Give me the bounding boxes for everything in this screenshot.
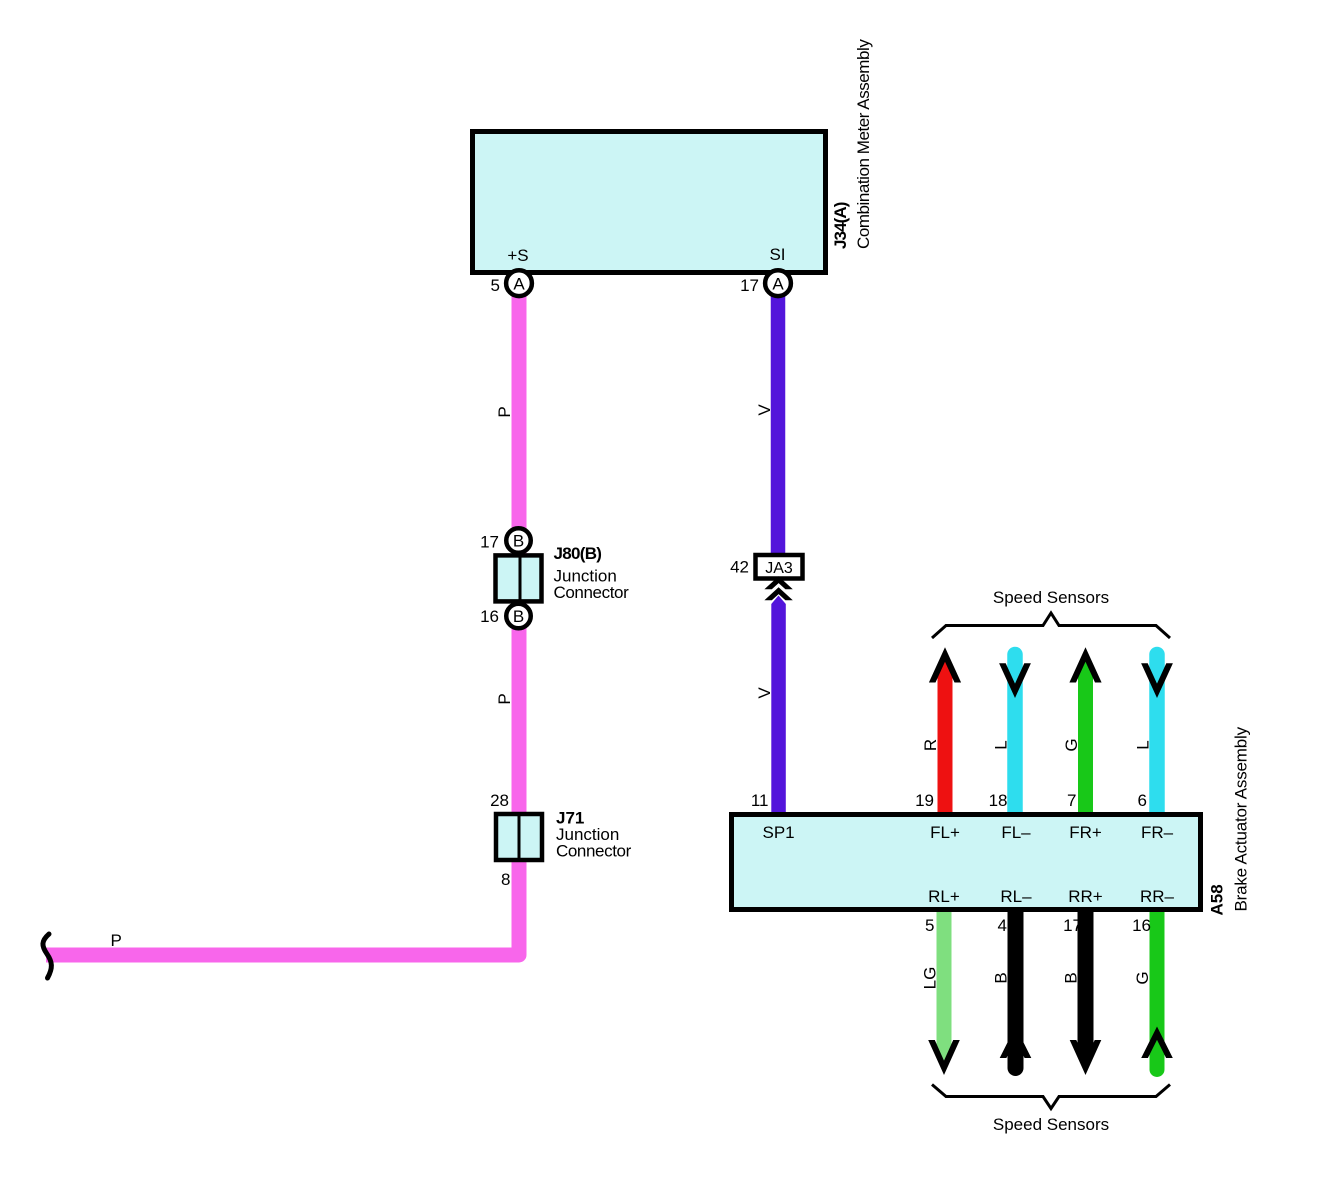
svg-text:Combination Meter Assembly: Combination Meter Assembly — [854, 39, 873, 249]
svg-text:Speed Sensors: Speed Sensors — [993, 1115, 1109, 1134]
svg-text:+S: +S — [507, 246, 528, 265]
svg-text:17: 17 — [480, 533, 499, 552]
svg-text:FR+: FR+ — [1069, 823, 1102, 842]
svg-text:RR+: RR+ — [1068, 887, 1103, 906]
svg-text:L: L — [992, 740, 1011, 749]
svg-text:Connector: Connector — [556, 842, 632, 861]
svg-text:17: 17 — [740, 276, 759, 295]
svg-text:FL–: FL– — [1001, 823, 1031, 842]
svg-text:28: 28 — [490, 791, 509, 810]
svg-text:B: B — [513, 607, 524, 626]
svg-text:RR–: RR– — [1140, 887, 1175, 906]
svg-text:B: B — [1062, 972, 1081, 983]
svg-text:8: 8 — [501, 870, 510, 889]
svg-text:RL–: RL– — [1000, 887, 1032, 906]
svg-text:18: 18 — [989, 791, 1008, 810]
svg-text:V: V — [755, 687, 774, 699]
svg-text:SI: SI — [769, 245, 785, 264]
svg-text:Connector: Connector — [554, 583, 630, 602]
svg-text:SP1: SP1 — [763, 823, 795, 842]
svg-text:FL+: FL+ — [930, 823, 960, 842]
svg-text:FR–: FR– — [1141, 823, 1174, 842]
svg-text:Brake Actuator Assembly: Brake Actuator Assembly — [1232, 726, 1251, 911]
svg-text:Speed Sensors: Speed Sensors — [993, 588, 1109, 607]
svg-text:LG: LG — [921, 967, 940, 990]
svg-text:P: P — [495, 693, 514, 704]
svg-text:A58: A58 — [1208, 884, 1227, 915]
svg-text:P: P — [495, 406, 514, 417]
svg-text:A: A — [772, 274, 784, 293]
svg-text:B: B — [513, 532, 524, 551]
svg-text:RL+: RL+ — [928, 887, 960, 906]
svg-text:19: 19 — [915, 791, 934, 810]
svg-text:4: 4 — [998, 916, 1007, 935]
svg-text:A: A — [513, 274, 525, 293]
svg-text:B: B — [992, 972, 1011, 983]
svg-text:J34(A): J34(A) — [831, 202, 850, 249]
svg-text:5: 5 — [925, 916, 934, 935]
svg-text:6: 6 — [1138, 791, 1147, 810]
svg-text:7: 7 — [1067, 791, 1076, 810]
svg-text:V: V — [755, 404, 774, 416]
svg-text:16: 16 — [480, 607, 499, 626]
svg-text:11: 11 — [751, 791, 769, 810]
svg-text:P: P — [111, 931, 122, 950]
svg-text:G: G — [1133, 971, 1152, 984]
svg-text:42: 42 — [730, 558, 749, 577]
svg-text:G: G — [1062, 738, 1081, 751]
svg-text:L: L — [1134, 740, 1153, 749]
svg-text:17: 17 — [1063, 916, 1082, 935]
svg-text:16: 16 — [1132, 916, 1151, 935]
svg-text:JA3: JA3 — [765, 560, 793, 577]
svg-text:R: R — [921, 739, 940, 751]
svg-text:5: 5 — [491, 276, 500, 295]
svg-text:J80(B): J80(B) — [554, 544, 602, 563]
